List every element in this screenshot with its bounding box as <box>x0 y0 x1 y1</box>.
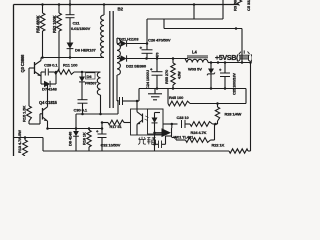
diode D7 <box>41 83 44 85</box>
svg-text:W03 5V: W03 5V <box>188 67 202 72</box>
wire x164 jog <box>163 19 165 29</box>
zener W03 <box>210 63 212 69</box>
wire primary top <box>103 5 105 16</box>
wire LED to bottom rail <box>154 135 156 151</box>
wire startup drop <box>193 5 195 20</box>
wire collector bus <box>41 57 104 59</box>
transformer core <box>109 11 111 108</box>
svg-text:R11 100: R11 100 <box>63 63 78 68</box>
node secondary rail <box>145 57 148 60</box>
wire top +310V rail <box>14 4 240 6</box>
svg-text:D6 HER107: D6 HER107 <box>75 48 97 53</box>
capacitor C26 <box>146 44 148 50</box>
resistor R16 <box>88 129 90 131</box>
capacitor C33 <box>181 120 183 128</box>
transistor Q4 <box>29 123 40 125</box>
svg-text:C30 0.1: C30 0.1 <box>74 108 88 113</box>
wire ground rail <box>139 88 246 90</box>
resistor R52 <box>58 5 60 14</box>
inductor L4 <box>187 55 208 57</box>
resistor R17 <box>108 120 124 125</box>
wire opto out <box>163 123 178 125</box>
svg-text:R13 4.7/0.5W: R13 4.7/0.5W <box>17 130 22 153</box>
resistor R3 <box>237 0 241 6</box>
svg-text:D7 4148: D7 4148 <box>42 87 57 92</box>
wire to top edge <box>69 0 71 5</box>
resistor R13 <box>14 137 44 139</box>
diode D6 <box>67 43 74 49</box>
svg-text:4.5W: 4.5W <box>178 71 182 79</box>
svg-text:C21: C21 <box>73 21 81 26</box>
svg-text:C24 1000U: C24 1000U <box>145 70 150 89</box>
svg-text:R16 1K: R16 1K <box>82 132 87 145</box>
svg-text:D8 4148: D8 4148 <box>68 131 73 146</box>
capacitor C31 <box>119 97 121 105</box>
wire gnd right drop <box>245 89 247 104</box>
capacitor C30 <box>78 99 88 101</box>
wire rail M2 <box>48 128 103 130</box>
resistor R26 inline <box>229 149 248 153</box>
svg-text:C29 0.1: C29 0.1 <box>44 63 58 68</box>
svg-text:Q3 C3866: Q3 C3866 <box>20 54 25 73</box>
diode D21 <box>121 40 127 46</box>
svg-text:R54 680K: R54 680K <box>36 15 41 33</box>
svg-text:R52 100K: R52 100K <box>52 15 57 33</box>
resistor R55 <box>172 59 174 64</box>
resistor R11 <box>53 71 55 73</box>
svg-text:R22 1K: R22 1K <box>212 143 225 148</box>
svg-text:R55 270: R55 270 <box>164 69 169 84</box>
svg-text:R17 51: R17 51 <box>110 124 123 129</box>
svg-text:D6: D6 <box>87 74 93 79</box>
wire M1 rail <box>76 113 118 115</box>
svg-text:W01 TL431: W01 TL431 <box>174 135 195 140</box>
wire right edge feedback <box>250 63 252 152</box>
svg-text:C25 1000/16V: C25 1000/16V <box>233 73 237 95</box>
svg-text:C5 332: C5 332 <box>246 0 251 11</box>
svg-text:470: 470 <box>156 52 160 58</box>
diode D22 <box>121 55 127 61</box>
svg-text:): ) <box>251 55 252 62</box>
opto inner box <box>148 109 164 134</box>
label optocoupler 光耦 <box>138 137 156 145</box>
wire x147 down to D21 node <box>146 19 148 44</box>
transformer aux winding <box>97 72 100 95</box>
resistor R15 <box>28 68 30 106</box>
svg-text:B2: B2 <box>118 7 124 12</box>
optocoupler box <box>131 109 164 135</box>
capacitor small <box>158 141 160 149</box>
capacitor C25 <box>224 63 226 73</box>
diode D8 <box>75 129 77 132</box>
svg-text:R15 1.5K: R15 1.5K <box>22 106 27 122</box>
wire opto collector up <box>136 101 138 109</box>
svg-text:R45 100: R45 100 <box>169 95 184 100</box>
wire 5VSB rail <box>208 62 252 64</box>
wire secondary return <box>117 100 119 101</box>
transistor Q3 <box>34 62 36 74</box>
wire x242 down to 5VSB rail <box>241 29 243 63</box>
svg-text:C32 10/50V: C32 10/50V <box>101 143 121 148</box>
resistor R22 <box>172 137 176 139</box>
capacitor C21 <box>69 5 71 15</box>
svg-text:R28 1/4W: R28 1/4W <box>225 112 242 117</box>
svg-text:D21 H1103: D21 H1103 <box>119 37 139 42</box>
svg-text:+5VSB(: +5VSB( <box>215 55 239 62</box>
resistor R24 <box>190 122 213 127</box>
wire bottom rail <box>42 138 44 152</box>
capacitor C29 <box>41 71 45 73</box>
svg-text:0.01/1500V: 0.01/1500V <box>71 26 91 31</box>
resistor R28 <box>217 104 219 108</box>
svg-text:R3 56K: R3 56K <box>233 0 238 11</box>
diode FR507 <box>81 72 83 77</box>
wire secondary taps <box>117 43 120 45</box>
wire to top edge x223 <box>222 0 224 19</box>
opto phototransistor <box>142 114 144 123</box>
transformer secondary winding <box>117 38 120 75</box>
wire rail M3 <box>102 122 108 124</box>
resistor R54 <box>42 5 44 14</box>
label FR507 <box>86 73 96 79</box>
capacitor C32 <box>101 123 103 135</box>
regulator TL431 <box>155 132 162 134</box>
wire horizontal y28.5 <box>164 28 242 30</box>
wire horizontal y19 <box>147 18 223 20</box>
node top rail junctions <box>41 3 44 6</box>
svg-text:Q4 C1815: Q4 C1815 <box>39 100 58 105</box>
ground <box>154 89 156 94</box>
capacitor C24 <box>156 59 158 72</box>
svg-text:D22 SB360: D22 SB360 <box>126 64 147 69</box>
svg-text:L4: L4 <box>192 50 197 55</box>
opto LED <box>154 113 156 118</box>
svg-text:FR507: FR507 <box>85 80 97 85</box>
wire left border <box>13 5 15 157</box>
resistor R45 <box>167 89 169 104</box>
svg-text:C33 10: C33 10 <box>177 115 190 120</box>
svg-text:C26 470/50V: C26 470/50V <box>148 38 171 43</box>
transformer primary winding <box>100 15 104 58</box>
